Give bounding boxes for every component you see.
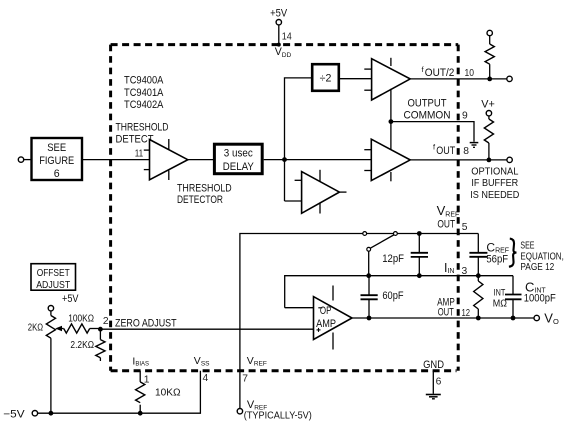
- ground GND: [426, 395, 441, 399]
- IC dashed border left: [109, 45, 112, 371]
- svg-text:FIGURE: FIGURE: [39, 155, 74, 167]
- svg-text:THRESHOLD: THRESHOLD: [116, 122, 169, 134]
- svg-text:(TYPICALLY-5V): (TYPICALLY-5V): [244, 410, 312, 422]
- potentiometer 2K: [46, 306, 55, 414]
- terminal VO: [534, 315, 539, 320]
- svg-text:DETECTOR: DETECTOR: [177, 194, 223, 206]
- wire common to ground: [391, 122, 474, 142]
- svg-text:100KΩ: 100KΩ: [68, 314, 94, 325]
- wire to inverter input: [285, 200, 302, 202]
- wire div2 to buffer: [339, 78, 372, 80]
- svg-text:3: 3: [462, 266, 468, 277]
- box OFFSET ADJUST: [31, 264, 76, 291]
- svg-text:14: 14: [282, 31, 292, 42]
- buffer fOUT/2: [364, 58, 410, 100]
- svg-text:IF BUFFER: IF BUFFER: [471, 178, 518, 189]
- svg-text:SEE: SEE: [47, 142, 66, 154]
- resistor 100K with wiper arrow: [55, 324, 100, 333]
- svg-text:OUT: OUT: [437, 218, 455, 230]
- capacitor CINT 1000pF: [505, 276, 522, 318]
- svg-text:60pF: 60pF: [382, 290, 404, 302]
- IC dashed border top: [111, 43, 459, 46]
- svg-text:11: 11: [135, 149, 144, 160]
- svg-text:2.2KΩ: 2.2KΩ: [70, 340, 94, 351]
- brace: [509, 239, 516, 267]
- resistor pull-up fOUT: [484, 111, 493, 160]
- svg-text:56pF: 56pF: [486, 254, 508, 266]
- resistor INT Mohm: [474, 276, 483, 318]
- box divide by 2: [312, 64, 339, 91]
- junction switch bottom: [366, 273, 371, 278]
- wire VREF OUT rail: [240, 234, 478, 412]
- wire box to comparator: [82, 159, 150, 161]
- wire VSS: [35, 371, 201, 413]
- box 3 usec DELAY: [214, 144, 262, 174]
- switch S1: [363, 232, 397, 276]
- terminal VREF bottom: [237, 409, 242, 414]
- svg-text:INT: INT: [494, 287, 506, 298]
- svg-text:−5V: −5V: [3, 408, 25, 420]
- svg-text:2: 2: [103, 316, 109, 327]
- svg-text:V+: V+: [481, 98, 495, 110]
- wire GND: [432, 371, 434, 394]
- input terminal: [18, 157, 23, 162]
- svg-text:OUT: OUT: [436, 145, 455, 157]
- svg-text:6: 6: [54, 168, 60, 180]
- inverter A2: [295, 170, 340, 214]
- wire vertical trunk: [285, 78, 313, 201]
- svg-text:12: 12: [462, 308, 471, 319]
- buffer fOUT: [364, 139, 410, 181]
- svg-text:GND: GND: [423, 359, 444, 371]
- junction output common: [389, 119, 394, 124]
- svg-text:IS NEEDED: IS NEEDED: [470, 190, 519, 201]
- svg-text:OUT/2: OUT/2: [425, 67, 455, 79]
- terminal fOUT/2 right: [507, 76, 512, 81]
- svg-text:OFFSET: OFFSET: [37, 268, 70, 279]
- svg-text:TC9401A: TC9401A: [124, 87, 164, 99]
- svg-text:MΩ: MΩ: [493, 299, 508, 310]
- svg-text:TC9400A: TC9400A: [124, 74, 164, 86]
- resistor 2.2K: [96, 329, 105, 361]
- wire op-amp output: [352, 317, 534, 319]
- svg-text:1000pF: 1000pF: [524, 293, 556, 305]
- svg-text:ADJUST: ADJUST: [36, 280, 70, 291]
- svg-text:10: 10: [465, 68, 475, 79]
- terminal +5V top: [276, 20, 281, 25]
- capacitor 60pF: [361, 276, 378, 321]
- svg-text:+5V: +5V: [270, 7, 288, 19]
- IC dashed border bottom: [111, 369, 457, 372]
- svg-text:÷2: ÷2: [320, 73, 332, 85]
- op-amp OP AMP: [314, 286, 353, 350]
- wire zero adjust: [100, 328, 313, 330]
- svg-text:7: 7: [242, 374, 248, 385]
- svg-text:OUT: OUT: [438, 306, 454, 318]
- svg-text:9: 9: [462, 110, 468, 121]
- svg-text:5: 5: [462, 222, 468, 233]
- svg-text:PAGE 12: PAGE 12: [520, 262, 554, 273]
- svg-text:+5V: +5V: [62, 293, 79, 305]
- wire input to box: [24, 159, 31, 161]
- svg-text:6: 6: [436, 377, 442, 388]
- svg-text:OPTIONAL: OPTIONAL: [471, 167, 519, 178]
- junction rail pot: [49, 411, 54, 416]
- junction amp out 1: [476, 316, 481, 321]
- svg-text:4: 4: [203, 373, 209, 384]
- wire delay to node: [264, 159, 285, 161]
- box SEE FIGURE 6: [32, 138, 83, 180]
- svg-text:OUTPUT: OUTPUT: [408, 97, 447, 109]
- junction fOUT/2: [487, 77, 492, 82]
- terminal -5V: [32, 411, 37, 416]
- junction rail 10K: [138, 411, 143, 416]
- node junction: [282, 157, 287, 162]
- ground output common: [470, 143, 479, 148]
- svg-text:12pF: 12pF: [382, 253, 404, 265]
- wire node to fOUT buffer: [285, 159, 372, 161]
- capacitor 12pF: [411, 231, 428, 278]
- svg-text:DETECT: DETECT: [116, 134, 154, 146]
- svg-text:ZERO ADJUST: ZERO ADJUST: [115, 317, 177, 329]
- svg-text:3 usec: 3 usec: [224, 148, 254, 160]
- svg-text:TC9402A: TC9402A: [124, 99, 164, 111]
- IC dashed border right: [457, 45, 460, 371]
- svg-text:EQUATION,: EQUATION,: [520, 252, 563, 263]
- terminal fOUT right: [507, 157, 512, 162]
- svg-text:8: 8: [463, 146, 469, 157]
- svg-text:COMMON: COMMON: [404, 109, 451, 121]
- wire common vertical: [390, 89, 392, 150]
- wire pin14: [278, 25, 280, 45]
- svg-text:SEE: SEE: [520, 240, 534, 251]
- op-amp U1 threshold detector comparator: [144, 139, 188, 180]
- junction amp out 2: [511, 316, 516, 321]
- svg-text:THRESHOLD: THRESHOLD: [177, 182, 232, 194]
- wire IIN rail: [285, 276, 513, 308]
- resistor 10K: [136, 371, 145, 413]
- junction IIN: [476, 273, 481, 278]
- svg-text:OP: OP: [320, 305, 332, 317]
- wire inverter output stub: [339, 191, 346, 193]
- capacitor CREF 56pF: [469, 234, 487, 276]
- wire comparator to delay: [188, 159, 213, 161]
- junction fOUT: [487, 158, 492, 163]
- node 2: [98, 327, 103, 332]
- svg-text:2KΩ: 2KΩ: [28, 323, 44, 334]
- svg-text:10KΩ: 10KΩ: [155, 387, 181, 398]
- svg-text:DELAY: DELAY: [223, 161, 254, 173]
- wire fOUT/2: [410, 78, 506, 80]
- resistor pull-up fOUT/2: [485, 30, 494, 79]
- wire fOUT: [410, 159, 507, 161]
- svg-text:AMP: AMP: [316, 318, 336, 330]
- wire op-amp minus input: [285, 307, 314, 309]
